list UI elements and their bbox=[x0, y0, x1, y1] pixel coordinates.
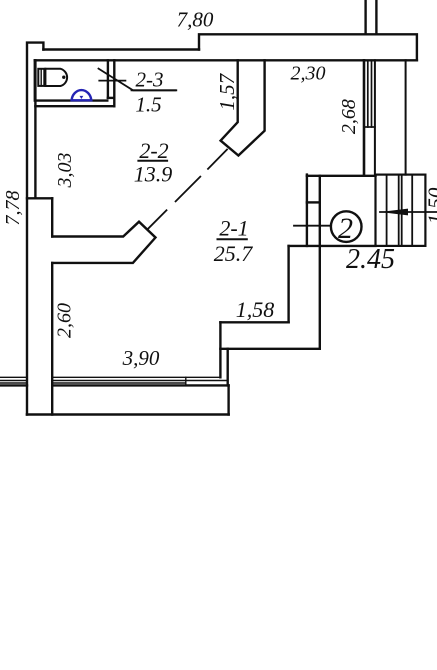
svg-text:13.9: 13.9 bbox=[134, 162, 173, 187]
wire left exterior wall outer line bbox=[27, 43, 43, 415]
wire column bottom cap / balcony bottom bbox=[27, 413, 229, 416]
bathroom door tick bbox=[99, 80, 125, 82]
svg-text:3,03: 3,03 bbox=[54, 153, 76, 189]
svg-text:2,30: 2,30 bbox=[291, 63, 326, 85]
wire top wall right segment bbox=[199, 34, 417, 60]
wire left wall inner line bbox=[34, 60, 36, 198]
toilet flush dot bbox=[62, 76, 65, 79]
wire stairwell division line bbox=[405, 60, 407, 174]
wall SE step outer bbox=[220, 348, 319, 350]
svg-text:1,58: 1,58 bbox=[236, 297, 275, 322]
svg-text:1.5: 1.5 bbox=[135, 93, 161, 117]
circle badge 2 bbox=[331, 211, 362, 242]
wire top wall left top edge bbox=[43, 48, 199, 50]
svg-text:3,90: 3,90 bbox=[122, 346, 160, 370]
leader line to circle 2 bbox=[294, 225, 331, 227]
leader line label 2-3 bbox=[99, 69, 177, 91]
svg-text:2,60: 2,60 bbox=[54, 303, 76, 338]
svg-text:2,68: 2,68 bbox=[338, 99, 360, 134]
svg-text:25.7: 25.7 bbox=[214, 241, 254, 266]
stairs direction arrow bbox=[380, 211, 437, 213]
wire column right edge upper bbox=[51, 198, 53, 236]
wire landing bottom edge bbox=[289, 245, 376, 247]
window band left of column bbox=[0, 377, 27, 383]
stair treads bbox=[387, 175, 413, 246]
toilet bbox=[38, 69, 67, 86]
svg-text:7,78: 7,78 bbox=[2, 191, 24, 226]
wire landing top edge bbox=[307, 175, 376, 177]
svg-text:1,50: 1,50 bbox=[424, 187, 437, 224]
dashed opening line bbox=[148, 150, 227, 229]
stairs block bbox=[376, 175, 426, 246]
wall vent shaft multiline bbox=[363, 60, 366, 175]
svg-text:2-1: 2-1 bbox=[219, 216, 248, 241]
wall partition with splayed door jamb bbox=[52, 222, 155, 263]
svg-text:7,80: 7,80 bbox=[177, 8, 214, 32]
wall hanging pier with splayed end bbox=[221, 60, 265, 155]
svg-text:1,57: 1,57 bbox=[215, 72, 239, 110]
svg-text:2.45: 2.45 bbox=[346, 244, 395, 275]
bathroom box bbox=[35, 60, 108, 100]
wire double line above top wall bbox=[364, 0, 366, 34]
svg-text:2-3: 2-3 bbox=[136, 68, 164, 92]
svg-text:2-2: 2-2 bbox=[139, 138, 168, 163]
window band bottom bbox=[52, 376, 220, 378]
wire top wall bottom edge bbox=[35, 59, 417, 61]
balcony right edge bbox=[227, 385, 229, 414]
wall SE step inner bbox=[287, 246, 289, 322]
svg-text:2: 2 bbox=[338, 212, 353, 245]
wall entrance door jamb bbox=[306, 175, 308, 246]
sink (blue) bbox=[72, 90, 92, 100]
wire column right edge lower bbox=[51, 263, 53, 415]
wire column top cap bbox=[27, 197, 52, 199]
